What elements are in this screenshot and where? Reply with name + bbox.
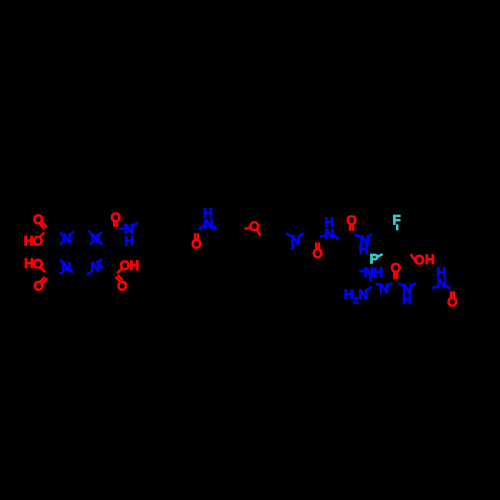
svg-text:N: N: [379, 281, 389, 296]
svg-text:O: O: [391, 261, 402, 276]
atom N6-H (amide NH mid): [203, 205, 213, 231]
atom O9 (acylguanidine C=O): [391, 261, 402, 276]
atom P1 (phosphorus): [370, 252, 379, 267]
bond stubs N12 amide: [433, 286, 449, 288]
bond stubs N7 tertiary: [287, 234, 303, 249]
bond C=O3 double stub: [116, 276, 122, 281]
atom O8 (amide C=O): [346, 213, 357, 228]
bond stubs N10 guanidine: [377, 284, 391, 287]
bond C=O9 double stub: [394, 273, 397, 278]
atom O3 (carboxylate C=O bottom-right): [117, 278, 128, 293]
bond stubs N5 ring+arm: [88, 260, 103, 275]
atom O10 (acetyl C=O): [447, 294, 458, 309]
bond C=O5 double stub: [195, 234, 198, 239]
svg-text:H: H: [359, 242, 369, 257]
bond F1-C stub: [396, 225, 399, 229]
atom OH2 (hydroxyl): [414, 252, 435, 267]
bond stubs N4 ring+arm: [61, 260, 73, 273]
svg-text:H: H: [203, 205, 213, 220]
atom O2 (amide C=O): [111, 210, 122, 225]
svg-text:O: O: [312, 246, 323, 261]
bond stubs NH-g: [360, 271, 371, 281]
atom O6 (ether O): [249, 219, 260, 234]
svg-text:H: H: [130, 258, 140, 273]
bond stubs N8 amide: [321, 235, 338, 239]
atom F1 (fluorine): [392, 212, 400, 227]
bond stubs N3 amide: [120, 223, 136, 229]
svg-text:O: O: [346, 213, 357, 228]
svg-text:H: H: [402, 292, 412, 307]
bond OH1-C stub: [118, 269, 122, 272]
svg-text:O: O: [191, 236, 202, 251]
bond stubs N1 ring+arm: [61, 232, 73, 244]
bond stubs O6 ether: [246, 227, 260, 234]
svg-text:H: H: [436, 265, 446, 280]
atom N2 (macrocycle ring N top-right): [91, 231, 101, 246]
svg-text:H: H: [373, 265, 383, 280]
atom N7 (tertiary amine N): [291, 233, 301, 248]
atom N1 (macrocycle ring N top-left): [62, 231, 72, 246]
svg-text:H: H: [344, 287, 354, 302]
atom HO1 (carboxyl OH top-left): [24, 233, 43, 248]
atom HO2 (carboxyl OH bottom-left): [24, 256, 43, 271]
bond C=O2 double stub: [114, 222, 117, 226]
svg-text:O: O: [447, 294, 458, 309]
bond HO1-C stub: [40, 233, 43, 236]
atom O4 (carboxylate C=O bottom-left): [33, 279, 44, 294]
atom N12-H (amide NH): [436, 265, 446, 291]
bond C=O10 double stub: [451, 292, 454, 296]
atom O7 (amide C=O): [312, 246, 323, 261]
bond OH2-C stub: [411, 255, 415, 260]
bond stubs N9 amide: [355, 235, 371, 237]
bond C=O4 double stub: [41, 278, 47, 283]
bond H2N-C stub: [366, 287, 371, 290]
bond stubs N6 amide: [200, 225, 216, 229]
atom N3-H (amide NH): [124, 221, 134, 248]
atom NH-g (guanidine =NH): [364, 265, 383, 280]
bond C=O1 double stub: [40, 223, 46, 228]
bond stubs N2 ring+arm: [89, 231, 102, 244]
bond stubs N11 amide: [399, 284, 415, 286]
atom O1 (carboxylate C=O top-left): [33, 212, 44, 227]
bond C=O8 double stub: [350, 225, 353, 229]
svg-text:H: H: [124, 234, 134, 249]
atom N4 (macrocycle ring N bottom-left): [61, 260, 71, 275]
svg-text:H: H: [324, 215, 334, 230]
atom N10 (guanidine N): [379, 281, 389, 296]
atom N9-H (amide NH): [359, 233, 370, 257]
atom N8-H (amide NH): [324, 215, 334, 241]
atom N11-H (amide NH): [402, 281, 412, 307]
svg-text:H: H: [425, 252, 435, 267]
svg-text:N: N: [364, 265, 374, 280]
bond HO2-C stub: [41, 268, 44, 272]
atom O5 (amide C=O mid): [191, 236, 202, 251]
bond P1-C stub: [377, 255, 381, 257]
atom OH1 (carboxyl OH bottom-right): [120, 258, 140, 273]
bond C=O7 double stub: [316, 243, 319, 247]
atom N5 (macrocycle ring N bottom-right): [91, 260, 101, 275]
atom H2N (guanidine NH2): [344, 287, 368, 307]
